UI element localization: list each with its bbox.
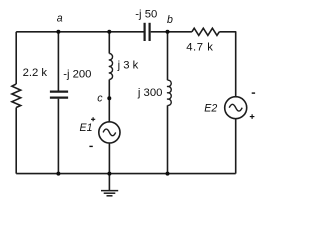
svg-text:j 3 k: j 3 k: [117, 59, 139, 71]
wire: bottom rail from left corner to right corner: [16, 173, 236, 175]
svg-text:4.7 k: 4.7 k: [186, 42, 213, 54]
wire: resistor R2 right end to top-right corner and down to source E2: [219, 32, 235, 97]
wire: node a down to capacitor C1 top plate: [57, 32, 59, 91]
svg-text:c: c: [97, 92, 103, 104]
source E2 sine symbol: [229, 104, 242, 111]
wire: node b down to inductor L2 top: [167, 32, 169, 80]
svg-text:-j 50: -j 50: [135, 8, 157, 20]
svg-text:E1: E1: [80, 122, 93, 134]
ground symbol stem: [108, 174, 110, 191]
svg-text:a: a: [57, 13, 63, 25]
source E1 plus sign: [91, 117, 95, 121]
wire: resistor R1 bottom to bottom-left corner: [15, 108, 17, 174]
capacitor C2 (-j 50) right plate: [149, 23, 151, 41]
svg-text:j 300: j 300: [137, 87, 163, 99]
junction dot: node c: [107, 96, 111, 100]
svg-text:b: b: [167, 14, 173, 26]
ground symbol bar 2: [104, 192, 116, 194]
svg-text:-j 200: -j 200: [63, 68, 91, 80]
wire: source E1 bottom to bottom rail: [108, 143, 110, 174]
junction dot: node b: [166, 30, 170, 34]
capacitor C2 (-j 50) left plate: [144, 23, 146, 41]
wire: source E2 bottom to bottom-right corner: [235, 119, 237, 174]
source E1 circle: [99, 122, 120, 143]
resistor R1 (2.2 k) zigzag: [12, 84, 21, 108]
svg-text:2.2 k: 2.2 k: [23, 67, 48, 79]
wire: capacitor C1 bottom plate to bottom rail: [57, 99, 59, 174]
junction dot: bottom rail / capacitor C1 branch: [56, 172, 60, 176]
ground symbol bar 1: [101, 190, 118, 192]
wire: top rail junction down to inductor L1 top: [108, 32, 110, 54]
junction dot: bottom rail / source E1 branch and ground: [107, 172, 111, 176]
inductor L2 (j 300) coil: [168, 80, 172, 105]
source E2 plus sign: [250, 114, 255, 119]
resistor R2 (4.7 k) zigzag: [192, 28, 219, 35]
wire: inductor L2 bottom to bottom rail: [167, 105, 169, 173]
wire: capacitor C2 right plate to resistor R2 left end (through node b): [151, 31, 192, 33]
source E1 minus sign: [89, 145, 92, 147]
inductor L1 (j 3 k) coil: [109, 54, 112, 80]
capacitor C1 (-j 200) top plate: [50, 90, 68, 92]
wire: top-left corner down to resistor R1 top: [15, 32, 17, 84]
ground symbol bar 3: [107, 195, 113, 197]
wire: inductor L1 bottom through node c to source E1 top: [108, 80, 110, 122]
source E2 minus sign: [252, 92, 255, 94]
svg-text:E2: E2: [204, 103, 217, 115]
source E2 circle: [225, 97, 247, 119]
junction dot: top rail / inductor L1 branch: [107, 30, 111, 34]
capacitor C1 (-j 200) bottom plate: [50, 96, 68, 98]
junction dot: bottom rail / inductor L2 branch: [166, 172, 170, 176]
source E1 sine symbol: [103, 129, 116, 136]
junction dot: node a on top rail: [56, 30, 60, 34]
wire: top rail from left corner through node a to capacitor C2 left plate: [16, 31, 143, 33]
